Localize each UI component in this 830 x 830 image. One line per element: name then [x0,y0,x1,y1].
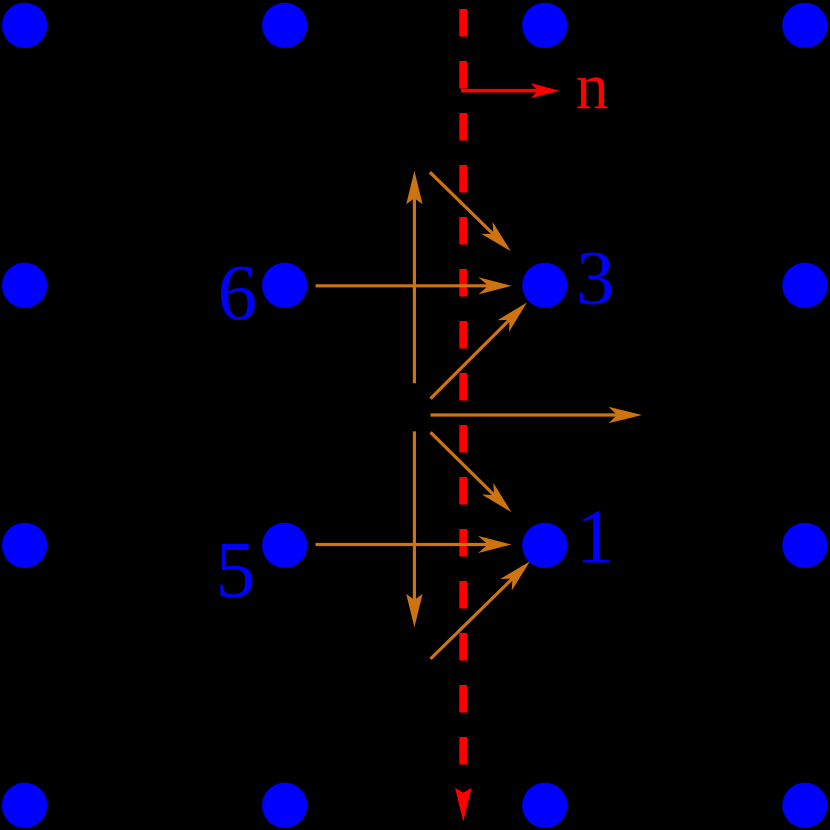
orange arrow from site 6 to site 3 (horizontal) [316,284,489,287]
svg-text:1: 1 [576,494,615,580]
site dot row 2 col 4 [782,263,827,308]
site dot row 3 col 1 [2,523,47,568]
site dot row 1 col 2 [262,3,307,48]
site dot row 4 col 3 [522,783,567,828]
svg-text:n: n [576,50,609,123]
orange diagonal arrow down-right [431,432,495,495]
orange down arrow along vertical axis [413,431,416,600]
orange long horizontal arrow to the right [431,413,618,416]
site dot row 3 col 2 [262,523,307,568]
red arrow for normal vector n [461,89,538,93]
site dot row 1 col 1 [2,3,47,48]
site dot row 2 col 2 [262,263,307,308]
svg-text:5: 5 [216,527,256,615]
site dot row 3 col 4 [782,523,827,568]
site dot row 1 col 3 [522,3,567,48]
site dot row 4 col 4 [782,783,827,828]
site dot row 4 col 2 [262,783,307,828]
site dot row 2 col 3 [522,263,567,308]
site dot row 2 col 1 [2,263,47,308]
svg-text:6: 6 [218,250,258,337]
site dot row 3 col 3 [522,523,567,568]
orange diagonal arrow top, down-right 45deg [430,172,493,234]
orange diagonal arrow bottom, up-right to site 1 [431,579,513,659]
orange arrow from site 5 to site 1 (horizontal) [316,543,488,546]
svg-text:3: 3 [576,234,615,320]
red arrowhead at bottom of dashed line [455,788,472,822]
red dashed mirror/glide plane line [459,9,467,765]
site dot row 1 col 4 [782,3,827,48]
orange up arrow along vertical axis [413,198,416,383]
orange diagonal arrow up-right to site 3 [431,320,510,399]
site dot row 4 col 1 [2,783,47,828]
